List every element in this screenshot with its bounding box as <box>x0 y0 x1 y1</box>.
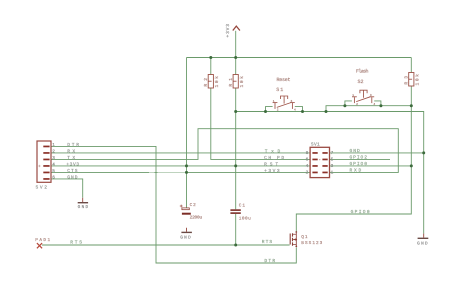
svg-text:10k: 10k <box>414 74 420 86</box>
SV2 wire labels DTR RX TX +3V3 CTS GND <box>66 142 79 181</box>
pushbutton S2 Flash <box>352 68 375 105</box>
wire S2 left leg <box>345 101 352 106</box>
wire S1 right leg <box>295 107 303 112</box>
wire CTS +3V3 row to SV1 pin 2 <box>51 171 310 173</box>
svg-text:4: 4 <box>294 109 296 112</box>
svg-text:S1: S1 <box>276 87 283 93</box>
svg-text:1: 1 <box>52 143 55 148</box>
junction R1 column RST row <box>234 164 237 167</box>
junction +3V3 column RST row <box>185 164 188 167</box>
svg-text:6: 6 <box>306 158 309 163</box>
resistor R3 10k <box>403 73 420 87</box>
junction +3V3 column +3V3 row <box>185 171 188 174</box>
junction R1 S1 bus <box>234 110 237 113</box>
resistor R2 10k <box>203 75 220 89</box>
wire C1 bottom lead <box>235 214 237 245</box>
svg-text:1: 1 <box>273 100 275 103</box>
net label GPIO0 bottom <box>351 209 370 215</box>
svg-text:C2: C2 <box>190 203 197 208</box>
svg-text:GND: GND <box>417 242 428 247</box>
svg-text:1: 1 <box>352 94 354 97</box>
svg-text:3: 3 <box>291 100 293 103</box>
svg-text:3: 3 <box>370 94 372 97</box>
svg-text:4: 4 <box>52 163 55 168</box>
svg-text:2: 2 <box>277 109 279 112</box>
wire GND bus from S1 row to bottom-right GND <box>236 112 424 234</box>
svg-text:100u: 100u <box>239 217 251 222</box>
svg-text:CTS: CTS <box>67 168 78 174</box>
svg-text:7: 7 <box>331 151 334 156</box>
junction R3 S2 bus <box>410 104 413 107</box>
wire GPIO2 stub SV1 pin5 <box>330 158 391 160</box>
junction S2 riser <box>325 110 328 113</box>
svg-text:+3V3: +3V3 <box>225 24 231 38</box>
svg-text:GND: GND <box>180 235 191 240</box>
transistor Q1 BSS123 <box>290 231 322 247</box>
svg-text:Q1: Q1 <box>301 235 308 240</box>
svg-text:5: 5 <box>331 158 334 163</box>
junction R1 top rail <box>234 56 237 59</box>
svg-text:8: 8 <box>306 151 309 156</box>
svg-text:4: 4 <box>306 164 309 169</box>
svg-text:GND: GND <box>67 174 78 180</box>
svg-text:S2: S2 <box>358 79 364 85</box>
svg-text:C1: C1 <box>239 204 246 209</box>
junction S2 left leg <box>343 104 346 107</box>
svg-text:3: 3 <box>331 164 334 169</box>
wire R3 column <box>410 58 412 166</box>
svg-text:GPIO0: GPIO0 <box>350 161 368 167</box>
wire R2 column and CH_PD run to SV1 pin 6 <box>211 58 310 160</box>
junction S1 right leg <box>301 110 304 113</box>
svg-text:+3V3: +3V3 <box>66 161 79 167</box>
SV1 left net labels TxD CH_PD RST +3V3 <box>264 148 284 174</box>
svg-text:2: 2 <box>356 103 358 106</box>
wire +3V3 stem <box>235 31 237 58</box>
capacitor C2 2200u <box>180 203 203 220</box>
svg-text:RST: RST <box>264 162 278 168</box>
svg-text:PAD1: PAD1 <box>35 238 50 243</box>
svg-text:3: 3 <box>52 156 55 161</box>
svg-text:Reset: Reset <box>277 77 291 83</box>
net label DTR bottom <box>264 258 275 264</box>
connector SV2 <box>36 141 56 190</box>
wire +3V3 column to C2 <box>186 58 188 208</box>
wire RTS row from PAD1 to Q1 gate <box>42 244 290 246</box>
wire S2 right leg <box>374 101 381 106</box>
junction GND column GND row <box>422 151 425 154</box>
wire GND row SV1 pin7 <box>330 152 424 154</box>
svg-text:5: 5 <box>52 169 55 174</box>
svg-text:4: 4 <box>373 103 375 106</box>
power symbol +3V3 <box>225 24 240 38</box>
svg-text:BSS123: BSS123 <box>301 241 322 246</box>
wire GPIO0 run to Q1 drain <box>296 166 411 233</box>
svg-text:10k: 10k <box>239 76 245 88</box>
junction R3 column GPIO0 row <box>410 164 413 167</box>
net label RTS right <box>262 239 273 245</box>
wire +3V3 top rail <box>187 57 412 59</box>
connector SV1 <box>306 141 334 177</box>
svg-text:RTS: RTS <box>70 239 82 245</box>
wire RX row to SV1 pin 8 <box>51 152 310 154</box>
svg-text:10k: 10k <box>214 76 220 88</box>
svg-text:GND: GND <box>350 148 361 154</box>
junction S2 right leg <box>379 104 382 107</box>
svg-text:GND: GND <box>78 205 89 210</box>
svg-text:RTS: RTS <box>262 239 273 245</box>
pad PAD1 <box>35 238 50 248</box>
svg-text:+3V3: +3V3 <box>264 168 280 174</box>
svg-text:RXD: RXD <box>350 168 362 174</box>
pushbutton S1 Reset <box>273 77 296 112</box>
resistor R1 10k <box>228 75 245 89</box>
junction C1 RTS row <box>234 244 237 247</box>
svg-text:6: 6 <box>52 176 55 181</box>
wire DTR net SV2 pin1 to Q1 source <box>51 146 296 263</box>
junction S1 left leg <box>264 110 267 113</box>
wire S2 bus riser <box>326 106 411 112</box>
wire GND row SV2 pin6 <box>51 179 83 198</box>
wire R1 column down to C1 <box>235 58 237 210</box>
svg-text:DTR: DTR <box>264 258 275 264</box>
wire +3V3 RST row to SV1 pin 4 <box>51 165 310 167</box>
svg-text:2200u: 2200u <box>190 216 203 221</box>
svg-text:GPIO2: GPIO2 <box>350 155 368 161</box>
wire GPIO0 row SV1 pin3 <box>330 165 412 167</box>
capacitor C1 100u <box>230 204 251 222</box>
wire TX row <box>51 129 398 173</box>
net label RTS left <box>70 239 82 245</box>
SV1 right net labels GND GPIO2 GPIO0 RXD <box>350 148 368 174</box>
svg-text:SV1: SV1 <box>311 141 320 147</box>
svg-text:DTR: DTR <box>67 142 79 148</box>
svg-text:TxD: TxD <box>265 148 281 154</box>
ground symbol bottom right <box>417 234 428 247</box>
ground symbol under SV2 <box>78 198 89 210</box>
junction R2 top rail <box>209 56 212 59</box>
svg-text:2: 2 <box>52 150 55 155</box>
svg-text:1: 1 <box>331 171 334 176</box>
svg-text:Flash: Flash <box>356 68 369 74</box>
svg-text:SV2: SV2 <box>36 184 48 190</box>
ground symbol under C2 <box>180 228 192 241</box>
wire S1 left leg <box>266 107 273 112</box>
svg-text:2: 2 <box>306 171 309 176</box>
